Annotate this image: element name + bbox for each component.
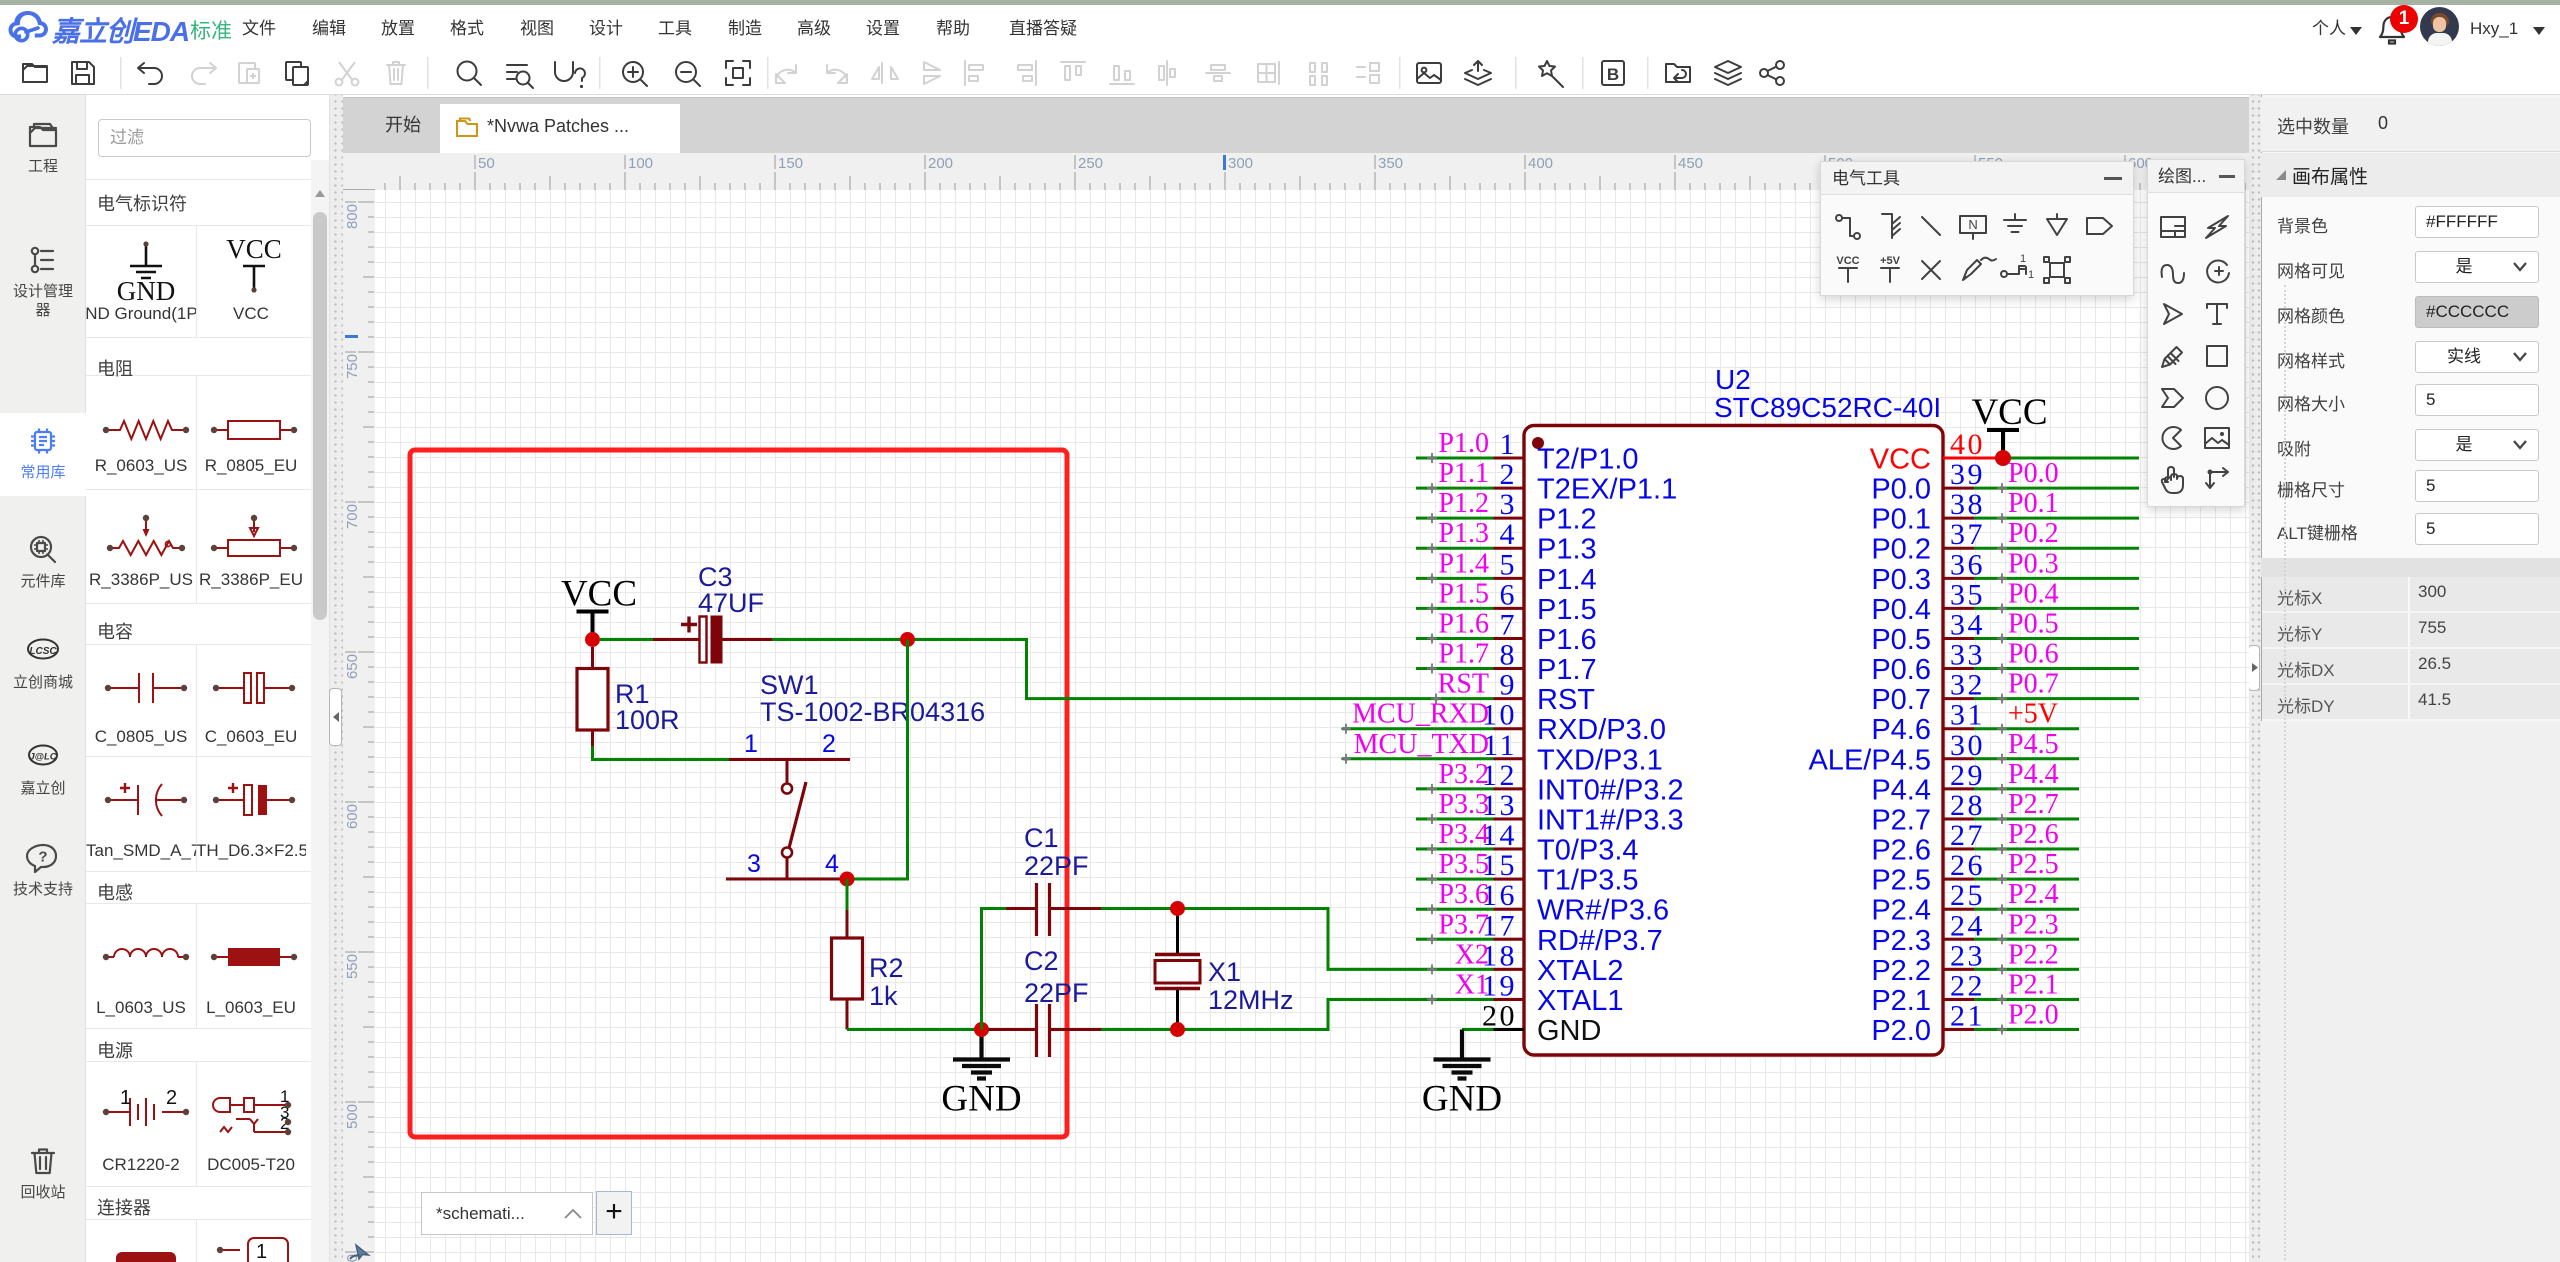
svg-text:RST: RST <box>1438 669 1489 700</box>
lib VCC symbol <box>226 234 282 293</box>
svg-text:P4.4: P4.4 <box>2008 759 2059 790</box>
pin 37 P0.2 (right) <box>1943 547 1974 550</box>
svg-text:P1.4: P1.4 <box>1537 564 1597 596</box>
bottom sheet tab <box>421 1192 593 1235</box>
svg-text:P0.0: P0.0 <box>1871 474 1931 506</box>
svg-text:38: 38 <box>1950 488 1985 521</box>
svg-text:P3.6: P3.6 <box>1438 879 1489 910</box>
svg-text:4: 4 <box>1500 518 1518 551</box>
svg-text:VCC: VCC <box>1870 444 1931 476</box>
svg-text:150: 150 <box>778 155 803 172</box>
svg-text:X1: X1 <box>1455 969 1489 1000</box>
pin 27 P2.6 (right) <box>1943 848 1974 851</box>
svg-text:P0.3: P0.3 <box>1871 564 1931 596</box>
svg-text:25: 25 <box>1950 879 1985 912</box>
svg-text:N: N <box>1968 217 1977 232</box>
svg-text:7: 7 <box>1500 608 1518 641</box>
pin 24 P2.3 (right) <box>1943 938 1974 941</box>
svg-text:P0.4: P0.4 <box>2008 578 2059 609</box>
pin 26 P2.5 (right) <box>1943 878 1974 881</box>
pin 32 P0.7 (right) <box>1943 697 1974 700</box>
svg-text:12MHz: 12MHz <box>1208 985 1294 1015</box>
svg-text:P3.3: P3.3 <box>1438 789 1489 820</box>
svg-text:P1.0: P1.0 <box>1438 428 1489 459</box>
junction X1 top <box>1170 901 1185 916</box>
svg-text:24: 24 <box>1950 909 1985 942</box>
svg-text:+5V: +5V <box>1880 255 1901 267</box>
floating panel: electrical tools <box>1820 161 2134 296</box>
svg-text:34: 34 <box>1950 608 1985 641</box>
svg-text:P0.1: P0.1 <box>2008 488 2059 519</box>
svg-text:P2.7: P2.7 <box>1871 804 1931 836</box>
svg-text:1k: 1k <box>869 981 898 1011</box>
svg-text:27: 27 <box>1950 819 1985 852</box>
svg-text:RXD/P3.0: RXD/P3.0 <box>1537 714 1666 746</box>
svg-text:8: 8 <box>1500 639 1518 672</box>
lib DC jack DC005-T20 <box>213 1087 291 1135</box>
svg-text:T1/P3.5: T1/P3.5 <box>1537 865 1639 897</box>
svg-text:RST: RST <box>1537 684 1595 716</box>
svg-text:STC89C52RC-40I: STC89C52RC-40I <box>1714 392 1941 423</box>
svg-text:28: 28 <box>1950 789 1985 822</box>
pin 2 T2EX/P1.1 (left) <box>1494 487 1525 490</box>
pin 13 INT1#/P3.3 (left) <box>1494 817 1525 820</box>
pin 10 RXD/P3.0 (left) <box>1494 727 1525 730</box>
library sections <box>86 179 311 180</box>
svg-text:T2/P1.0: T2/P1.0 <box>1537 444 1639 476</box>
library panel <box>86 95 311 1262</box>
lib capacitor C_0805_US <box>105 673 187 703</box>
svg-text:J@LC: J@LC <box>29 752 56 763</box>
pin 30 ALE/P4.5 (right) <box>1943 757 1974 760</box>
svg-text:XTAL1: XTAL1 <box>1537 985 1624 1017</box>
svg-text:1: 1 <box>2028 269 2034 281</box>
svg-text:U2: U2 <box>1715 364 1751 395</box>
svg-text:VCC: VCC <box>1836 255 1859 267</box>
crystal X1 12MHz <box>1176 909 1179 1030</box>
svg-text:P1.7: P1.7 <box>1537 654 1597 686</box>
svg-text:?: ? <box>38 849 47 866</box>
pin 12 INT0#/P3.2 (left) <box>1494 787 1525 790</box>
svg-text:P2.3: P2.3 <box>1871 925 1931 957</box>
svg-text:3: 3 <box>1500 488 1518 521</box>
svg-text:P2.1: P2.1 <box>1871 985 1931 1017</box>
svg-text:MCU_TXD: MCU_TXD <box>1354 729 1489 760</box>
pin 21 P2.0 (right) <box>1943 1028 1974 1031</box>
svg-text:33: 33 <box>1950 639 1985 672</box>
svg-text:P2.1: P2.1 <box>2008 969 2059 1000</box>
svg-text:P4.4: P4.4 <box>1871 774 1931 806</box>
svg-text:P3.5: P3.5 <box>1438 849 1489 880</box>
svg-text:2: 2 <box>1500 458 1518 491</box>
svg-text:700: 700 <box>344 504 361 529</box>
junction SW1 pin4 <box>840 872 855 887</box>
svg-text:450: 450 <box>1678 155 1703 172</box>
svg-text:30: 30 <box>1950 729 1985 762</box>
svg-text:P2.0: P2.0 <box>2008 1000 2059 1031</box>
document tab bar <box>343 97 2249 153</box>
right dotted strip <box>2249 95 2261 1262</box>
capacitor C3 47UF <box>653 638 699 641</box>
svg-text:P1.3: P1.3 <box>1537 534 1597 566</box>
lib capacitor Tan_SMD_A <box>105 783 187 816</box>
wire X1 top to XTAL2 pin <box>1178 909 1494 970</box>
svg-text:B: B <box>1607 65 1619 84</box>
svg-text:TS-1002-BR04316: TS-1002-BR04316 <box>760 697 985 727</box>
svg-text:SW1: SW1 <box>760 670 819 700</box>
svg-text:P2.6: P2.6 <box>1871 835 1931 867</box>
svg-text:31: 31 <box>1950 699 1985 732</box>
svg-text:100R: 100R <box>615 705 680 735</box>
svg-text:T0/P3.4: T0/P3.4 <box>1537 835 1639 867</box>
pin 20 GND (left) <box>1494 1028 1525 1031</box>
svg-text:1: 1 <box>1500 428 1518 461</box>
avatar <box>2420 7 2459 46</box>
svg-text:9: 9 <box>1500 669 1518 702</box>
rulers <box>343 153 375 190</box>
svg-text:P0.7: P0.7 <box>1871 684 1931 716</box>
svg-text:MCU_RXD: MCU_RXD <box>1352 699 1489 730</box>
svg-text:29: 29 <box>1950 759 1985 792</box>
svg-text:P1.4: P1.4 <box>1438 548 1489 579</box>
svg-text:P1.7: P1.7 <box>1438 639 1489 670</box>
svg-text:INT1#/P3.3: INT1#/P3.3 <box>1537 804 1684 836</box>
lib capacitor TH_D6.3xF2 <box>213 783 295 815</box>
svg-text:P1.6: P1.6 <box>1537 624 1597 656</box>
wire C1 left vertical <box>982 909 1007 1030</box>
wire X1 bottom to XTAL1 pin <box>1178 999 1494 1029</box>
pin 3 P1.2 (left) <box>1494 517 1525 520</box>
lib inductor L_0603_US <box>103 949 189 960</box>
svg-text:35: 35 <box>1950 578 1985 611</box>
wire C1 to X1 top <box>1101 907 1178 910</box>
svg-text:2: 2 <box>166 1087 177 1109</box>
pin 22 P2.1 (right) <box>1943 998 1974 1001</box>
svg-text:P1.1: P1.1 <box>1438 458 1489 489</box>
svg-text:P1.2: P1.2 <box>1537 504 1597 536</box>
svg-text:6: 6 <box>1500 578 1518 611</box>
svg-text:800: 800 <box>344 204 361 229</box>
svg-text:P4.6: P4.6 <box>1871 714 1931 746</box>
mouse cursor artifact <box>348 1243 374 1262</box>
library scrollbar <box>311 160 329 1262</box>
svg-text:P1.3: P1.3 <box>1438 518 1489 549</box>
svg-text:P0.3: P0.3 <box>2008 548 2059 579</box>
svg-text:P2.2: P2.2 <box>1871 955 1931 987</box>
wire C2 to X1 bottom <box>1101 1028 1178 1031</box>
svg-text:P1.5: P1.5 <box>1438 578 1489 609</box>
junction X1 bottom <box>1170 1022 1185 1037</box>
capacitor C2 22PF <box>988 1028 1037 1031</box>
svg-text:P2.4: P2.4 <box>2008 879 2059 910</box>
svg-text:50: 50 <box>478 155 495 172</box>
svg-text:350: 350 <box>1378 155 1403 172</box>
lib inductor L_0603_EU <box>211 948 297 966</box>
svg-text:P3.4: P3.4 <box>1438 819 1489 850</box>
svg-text:X2: X2 <box>1455 939 1489 970</box>
pin 9 RST (left) <box>1494 697 1525 700</box>
resistor R2 1k <box>846 879 849 910</box>
pin 11 TXD/P3.1 (left) <box>1494 757 1525 760</box>
svg-text:P0.1: P0.1 <box>1871 504 1931 536</box>
svg-text:P0.5: P0.5 <box>2008 608 2059 639</box>
svg-text:VCC: VCC <box>1971 392 2047 433</box>
pin 1 T2/P1.0 (left) <box>1494 457 1525 460</box>
svg-text:36: 36 <box>1950 548 1985 581</box>
svg-text:P2.6: P2.6 <box>2008 819 2059 850</box>
left sidebar <box>0 95 86 1262</box>
svg-text:1: 1 <box>256 1241 267 1262</box>
pin 39 P0.0 (right) <box>1943 487 1974 490</box>
svg-text:P0.6: P0.6 <box>2008 639 2059 670</box>
pin 19 XTAL1 (left) <box>1494 998 1525 1001</box>
svg-text:WR#/P3.6: WR#/P3.6 <box>1537 895 1669 927</box>
pin 17 RD#/P3.7 (left) <box>1494 938 1525 941</box>
svg-text:RD#/P3.7: RD#/P3.7 <box>1537 925 1663 957</box>
right properties sidebar <box>2261 95 2560 1262</box>
svg-text:GND: GND <box>1537 1015 1601 1047</box>
pin 25 P2.4 (right) <box>1943 908 1974 911</box>
svg-text:C1: C1 <box>1024 823 1059 853</box>
lib potentiometer R_3386P_EU <box>211 515 297 556</box>
selection rectangle (red) <box>410 450 1067 1137</box>
svg-text:600: 600 <box>344 804 361 829</box>
brand text <box>52 10 189 50</box>
svg-text:550: 550 <box>344 954 361 979</box>
pin 23 P2.2 (right) <box>1943 968 1974 971</box>
svg-text:ALE/P4.5: ALE/P4.5 <box>1808 744 1931 776</box>
pin 36 P0.3 (right) <box>1943 577 1974 580</box>
svg-text:200: 200 <box>928 155 953 172</box>
svg-text:P0.6: P0.6 <box>1871 654 1931 686</box>
svg-text:250: 250 <box>1078 155 1103 172</box>
pin 34 P0.5 (right) <box>1943 637 1974 640</box>
svg-text:GND: GND <box>941 1079 1021 1120</box>
svg-text:VCC: VCC <box>561 574 637 615</box>
svg-text:GND: GND <box>117 276 176 306</box>
svg-text:23: 23 <box>1950 939 1985 972</box>
lib resistor R_0805_EU <box>211 421 297 439</box>
svg-text:22PF: 22PF <box>1024 978 1089 1008</box>
pin 40 VCC (right) <box>1943 457 2002 460</box>
svg-text:P2.5: P2.5 <box>1871 865 1931 897</box>
svg-text:P0.2: P0.2 <box>2008 518 2059 549</box>
lib capacitor C_0603_EU <box>213 673 295 703</box>
lib connector partial <box>116 1252 176 1262</box>
svg-text:+5V: +5V <box>2008 699 2058 730</box>
svg-text:3: 3 <box>747 850 761 878</box>
svg-text:LCSC: LCSC <box>29 646 57 657</box>
svg-text:GND: GND <box>1422 1079 1502 1120</box>
node A junction <box>900 632 915 647</box>
pin 29 P4.4 (right) <box>1943 787 1974 790</box>
logo cloud <box>8 9 48 45</box>
svg-text:650: 650 <box>344 654 361 679</box>
svg-text:P2.0: P2.0 <box>1871 1015 1931 1047</box>
svg-text:P0.5: P0.5 <box>1871 624 1931 656</box>
top window strip <box>0 0 2560 5</box>
resistor R1 100R <box>591 647 594 669</box>
pin 31 P4.6 (right) <box>1943 727 1974 730</box>
svg-text:1: 1 <box>2020 253 2026 265</box>
svg-text:37: 37 <box>1950 518 1985 551</box>
pin 14 T0/P3.4 (left) <box>1494 848 1525 851</box>
pin 6 P1.5 (left) <box>1494 607 1525 610</box>
svg-text:P0.7: P0.7 <box>2008 669 2059 700</box>
pin 4 P1.3 (left) <box>1494 547 1525 550</box>
svg-text:XTAL2: XTAL2 <box>1537 955 1624 987</box>
bell icon <box>2378 15 2406 45</box>
svg-text:T2EX/P1.1: T2EX/P1.1 <box>1537 474 1677 506</box>
ground GND (reset circuit) <box>953 1030 1010 1079</box>
svg-text:C2: C2 <box>1024 946 1059 976</box>
junction GND node <box>974 1022 989 1037</box>
svg-text:P2.4: P2.4 <box>1871 895 1931 927</box>
menu bar <box>0 5 2560 52</box>
menu items <box>238 5 280 52</box>
svg-text:100: 100 <box>628 155 653 172</box>
svg-text:P0.2: P0.2 <box>1871 534 1931 566</box>
wire SW1 pin4 up to node A <box>847 640 908 880</box>
svg-text:4: 4 <box>825 850 839 878</box>
wire node to RST pin <box>908 640 1494 699</box>
floating panel: drawing tools <box>2147 159 2245 507</box>
junction VCC pin40 <box>1995 450 2011 466</box>
svg-text:P2.2: P2.2 <box>2008 939 2059 970</box>
svg-text:1: 1 <box>120 1087 131 1109</box>
pin 38 P0.1 (right) <box>1943 517 1974 520</box>
svg-text:P1.5: P1.5 <box>1537 594 1597 626</box>
pin 28 P2.7 (right) <box>1943 817 1974 820</box>
svg-text:47UF: 47UF <box>698 588 764 618</box>
svg-text:2: 2 <box>822 730 836 758</box>
toolbar row <box>0 52 2560 95</box>
pin 35 P0.4 (right) <box>1943 607 1974 610</box>
svg-text:P3.2: P3.2 <box>1438 759 1489 790</box>
switch SW1 TS-1002-BR04316 <box>729 758 850 761</box>
svg-text:21: 21 <box>1950 1000 1985 1033</box>
wire R1 to SW1 pin1 <box>593 746 730 760</box>
pin 33 P0.6 (right) <box>1943 667 1974 670</box>
svg-text:5: 5 <box>1500 548 1518 581</box>
pin 18 XTAL2 (left) <box>1494 968 1525 971</box>
canvas <box>375 190 2249 1262</box>
svg-text:500: 500 <box>344 1104 361 1129</box>
capacitor C1 22PF <box>1006 907 1037 910</box>
wire R2 to GND node <box>847 1028 982 1031</box>
svg-text:750: 750 <box>344 354 361 379</box>
svg-text:P2.7: P2.7 <box>2008 789 2059 820</box>
pin 7 P1.6 (left) <box>1494 637 1525 640</box>
junction VCC node <box>585 632 600 647</box>
lib GND symbol <box>117 241 176 306</box>
svg-text:P4.5: P4.5 <box>2008 729 2059 760</box>
svg-text:P3.7: P3.7 <box>1438 909 1489 940</box>
IC U2 STC89C52RC-40I body <box>1524 426 1943 1056</box>
svg-text:R2: R2 <box>869 953 904 983</box>
lib battery CR1220-2 <box>103 1087 189 1126</box>
svg-text:20: 20 <box>1482 1000 1517 1033</box>
svg-text:300: 300 <box>1228 155 1253 172</box>
svg-text:39: 39 <box>1950 458 1985 491</box>
badge <box>2390 5 2418 33</box>
wire C3 to node <box>772 638 908 641</box>
svg-text:P2.5: P2.5 <box>2008 849 2059 880</box>
lib potentiometer R_3386P_US <box>107 515 185 555</box>
pin 15 T1/P3.5 (left) <box>1494 878 1525 881</box>
svg-text:32: 32 <box>1950 669 1985 702</box>
left dotted strip <box>329 95 343 1262</box>
pin 8 P1.7 (left) <box>1494 667 1525 670</box>
svg-text:26: 26 <box>1950 849 1985 882</box>
svg-text:TXD/P3.1: TXD/P3.1 <box>1537 744 1663 776</box>
pin 1 marker dot <box>1532 437 1544 449</box>
svg-text:22PF: 22PF <box>1024 851 1089 881</box>
svg-text:1: 1 <box>744 730 758 758</box>
user cluster <box>2309 5 2349 52</box>
svg-text:P2.3: P2.3 <box>2008 909 2059 940</box>
svg-text:VCC: VCC <box>226 234 282 264</box>
pin 5 P1.4 (left) <box>1494 577 1525 580</box>
svg-text:400: 400 <box>1528 155 1553 172</box>
svg-text:P1.6: P1.6 <box>1438 608 1489 639</box>
svg-text:X1: X1 <box>1208 957 1241 987</box>
svg-text:P0.0: P0.0 <box>2008 458 2059 489</box>
svg-text:P0.4: P0.4 <box>1871 594 1931 626</box>
lib resistor R_0603_US <box>103 421 189 439</box>
ground GND (pin 20) <box>1434 1030 1491 1079</box>
svg-text:INT0#/P3.2: INT0#/P3.2 <box>1537 774 1684 806</box>
svg-text:22: 22 <box>1950 969 1985 1002</box>
svg-text:P1.2: P1.2 <box>1438 488 1489 519</box>
wire VCC to C3 <box>600 638 653 641</box>
pin 16 WR#/P3.6 (left) <box>1494 908 1525 911</box>
